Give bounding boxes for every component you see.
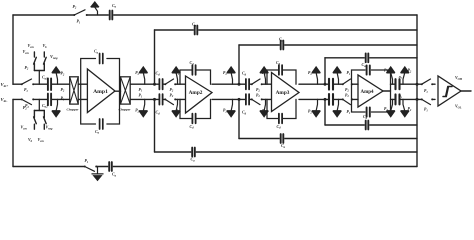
wire: top feedback rail 3 [239,44,417,46]
switch P2 to Vneg arrow, rail B [56,99,57,111]
switch P1 on bottom feedback rail [85,165,96,168]
wire: top feedback rail 4 [325,57,417,59]
comparator U5 with hysteresis [438,76,461,106]
capacitor Ca top feedback rail 1 [109,14,113,17]
wire Amp1 output to chopper2 [115,90,121,92]
switch P1 comparator input rail B [422,98,432,101]
switch P1 series rail A x=165.5 [166,83,176,86]
wire: right feedback bus vertical [416,15,418,167]
wire: rail B output section [391,98,436,100]
switch P2 arrow clamp rail B x=404 (right) [403,99,405,111]
svg-text:Ca: Ca [191,156,196,162]
node feedback tap x=154.5 [153,83,156,86]
wire: rail B stage3 coupling [212,98,272,100]
amp A3 feedback loop top with capacitor Cf [267,70,296,84]
wire chopper1 to Amp1 [78,83,87,85]
switch P1 series rail B x=165.5 [166,98,176,101]
switch P1 series rail A x=252 [252,83,262,86]
capacitor Ca bottom feedback rail 2 [191,151,195,154]
op-amp Amp1 [87,69,115,113]
svg-text:Amp4: Amp4 [360,90,374,95]
capacitor Ca top feedback rail 4 [365,57,369,60]
switch P2 arrow clamp rail A x=317.5 [316,73,317,85]
switch P1 comparator input rail A [422,83,432,86]
switch P2 arrow clamp rail B x=396 (left) [391,99,393,111]
capacitor Ca2 input rail B [47,98,51,101]
node output bus taps [416,83,419,86]
switch P2 arrow clamp rail B x=232.5 [231,99,232,111]
op-amp Amp3 [272,73,300,112]
wire comparator output [461,90,471,92]
capacitor Ca (Amp1 top integrator cap) [100,54,103,64]
svg-text:VOL: VOL [455,103,462,109]
switch P2 arrow clamp rail A x=404 (right) [403,73,405,85]
switch P2 arrow clamp rail B x=177.5 [176,99,177,111]
switch P1/P2 on top feedback rail [75,14,87,17]
capacitor Ca (Amp4 bottom integrator cap) [367,107,370,116]
switch P2 arrow clamp rail B x=340 [337,99,338,111]
capacitor Ca bottom feedback rail 1 [108,165,112,168]
switch P1 series rail B x=252 [252,98,262,101]
switch P2 to Vneg arrow, rail A [56,73,57,85]
capacitor Ca bottom feedback rail 4 [365,124,369,127]
switch P2 input rail B [22,98,33,101]
capacitor Ca top feedback rail 2 [194,29,198,32]
capacitor Cd2 rail A [245,83,249,86]
wire: top feedback rail 2 [155,29,418,31]
switch P2 arrow clamp on top feedback rail [95,7,98,15]
switch P2 arrow clamp rail A x=177.5 [176,73,177,85]
wire: rail A stage3 coupling [212,83,272,85]
wire rail A inside Amp4 box [352,83,359,85]
switch P1 series rail A x=343 [343,83,352,86]
capacitor Cd3 rail A (bold) [328,83,334,86]
capacitor Da rail A output [395,83,400,86]
bias network top: Vcm/Vb selector switches [38,71,40,85]
switch P2 arrow clamp rail A x=144.7 [143,73,144,85]
wire: bottom feedback rail 4 [325,124,417,126]
capacitor Ca bottom feedback rail 3 [280,137,284,140]
op-amp Amp4 [358,75,383,107]
svg-text:Amp3: Amp3 [276,90,290,96]
wire Amp4 output [383,90,391,92]
switch P2 arrow clamp rail B x=265.5 [264,99,265,111]
switch P2 arrow clamp rail A x=265.5 [264,73,265,85]
capacitor Ca top feedback rail 3 [280,44,284,47]
switch P1 series rail B x=343 [343,98,352,101]
svg-text:Ca: Ca [112,171,117,177]
wire: left input feedback vertical [12,15,14,84]
svg-text:Chopper: Chopper [119,108,132,112]
wire: rail B stage4 coupling [299,98,352,100]
wire: rail B input section [13,98,70,100]
amp A4 box with feedback caps [352,70,391,112]
switch P2 arrow clamp rail B x=144.7 [143,99,144,111]
capacitor Ca (Amp4 top integrator cap) [367,65,370,74]
switch P2 arrow clamp rail A x=232.5 [231,73,232,85]
wire rail B inside Amp4 box [352,98,359,100]
capacitor Cd1 rail B [159,98,163,101]
capacitor Cd3 rail B (bold) [328,98,334,101]
wire: bottom feedback rail 3 [239,138,417,140]
ground symbol on bottom feedback rail [97,167,99,174]
capacitor Ca1 input rail A [47,83,51,86]
switch P2 arrow clamp rail A x=396 (left) [391,73,393,85]
capacitor Cd2 rail B [245,98,249,101]
wire: rail B stage2 coupling [130,98,185,100]
svg-text:Amp2: Amp2 [189,90,203,96]
amp A1 box with feedback caps [81,59,120,125]
chopper CH1 input chopper [70,77,79,104]
bias network bottom: Vcm/Vb selector switches [38,99,40,110]
node feedback tap x=326 [324,83,327,86]
wire: rail A input section [13,83,70,85]
switch P1 input rail A [22,83,33,86]
chopper CH2 output chopper [121,77,131,104]
capacitor Cd1 rail A [159,83,163,86]
amp A2 feedback loop bottom with capacitor Cf [180,99,211,118]
svg-text:Chopper: Chopper [67,108,80,112]
svg-text:Amp1: Amp1 [93,89,108,95]
capacitor Da rail B output [395,98,400,101]
node feedback tap x=239 [238,83,241,86]
wire: bottom feedback rail 1 [13,166,417,168]
wire: rail A stage2 coupling [130,83,185,85]
amp A3 feedback loop bottom with capacitor Cf [267,99,296,118]
wire: rail A stage4 coupling [299,83,352,85]
op-amp Amp2 [186,76,213,113]
wire: top feedback rail 1 [13,14,417,16]
switch P2 arrow clamp rail B x=317.5 [316,99,317,111]
capacitor Ca (Amp1 bottom integrator cap) [100,119,103,129]
wire: rail A output section [391,83,436,85]
wire: bottom feedback rail 2 [155,151,418,153]
amp A2 feedback loop top with capacitor Cf [180,70,211,84]
switch P2 arrow clamp rail A x=340 [337,73,338,85]
